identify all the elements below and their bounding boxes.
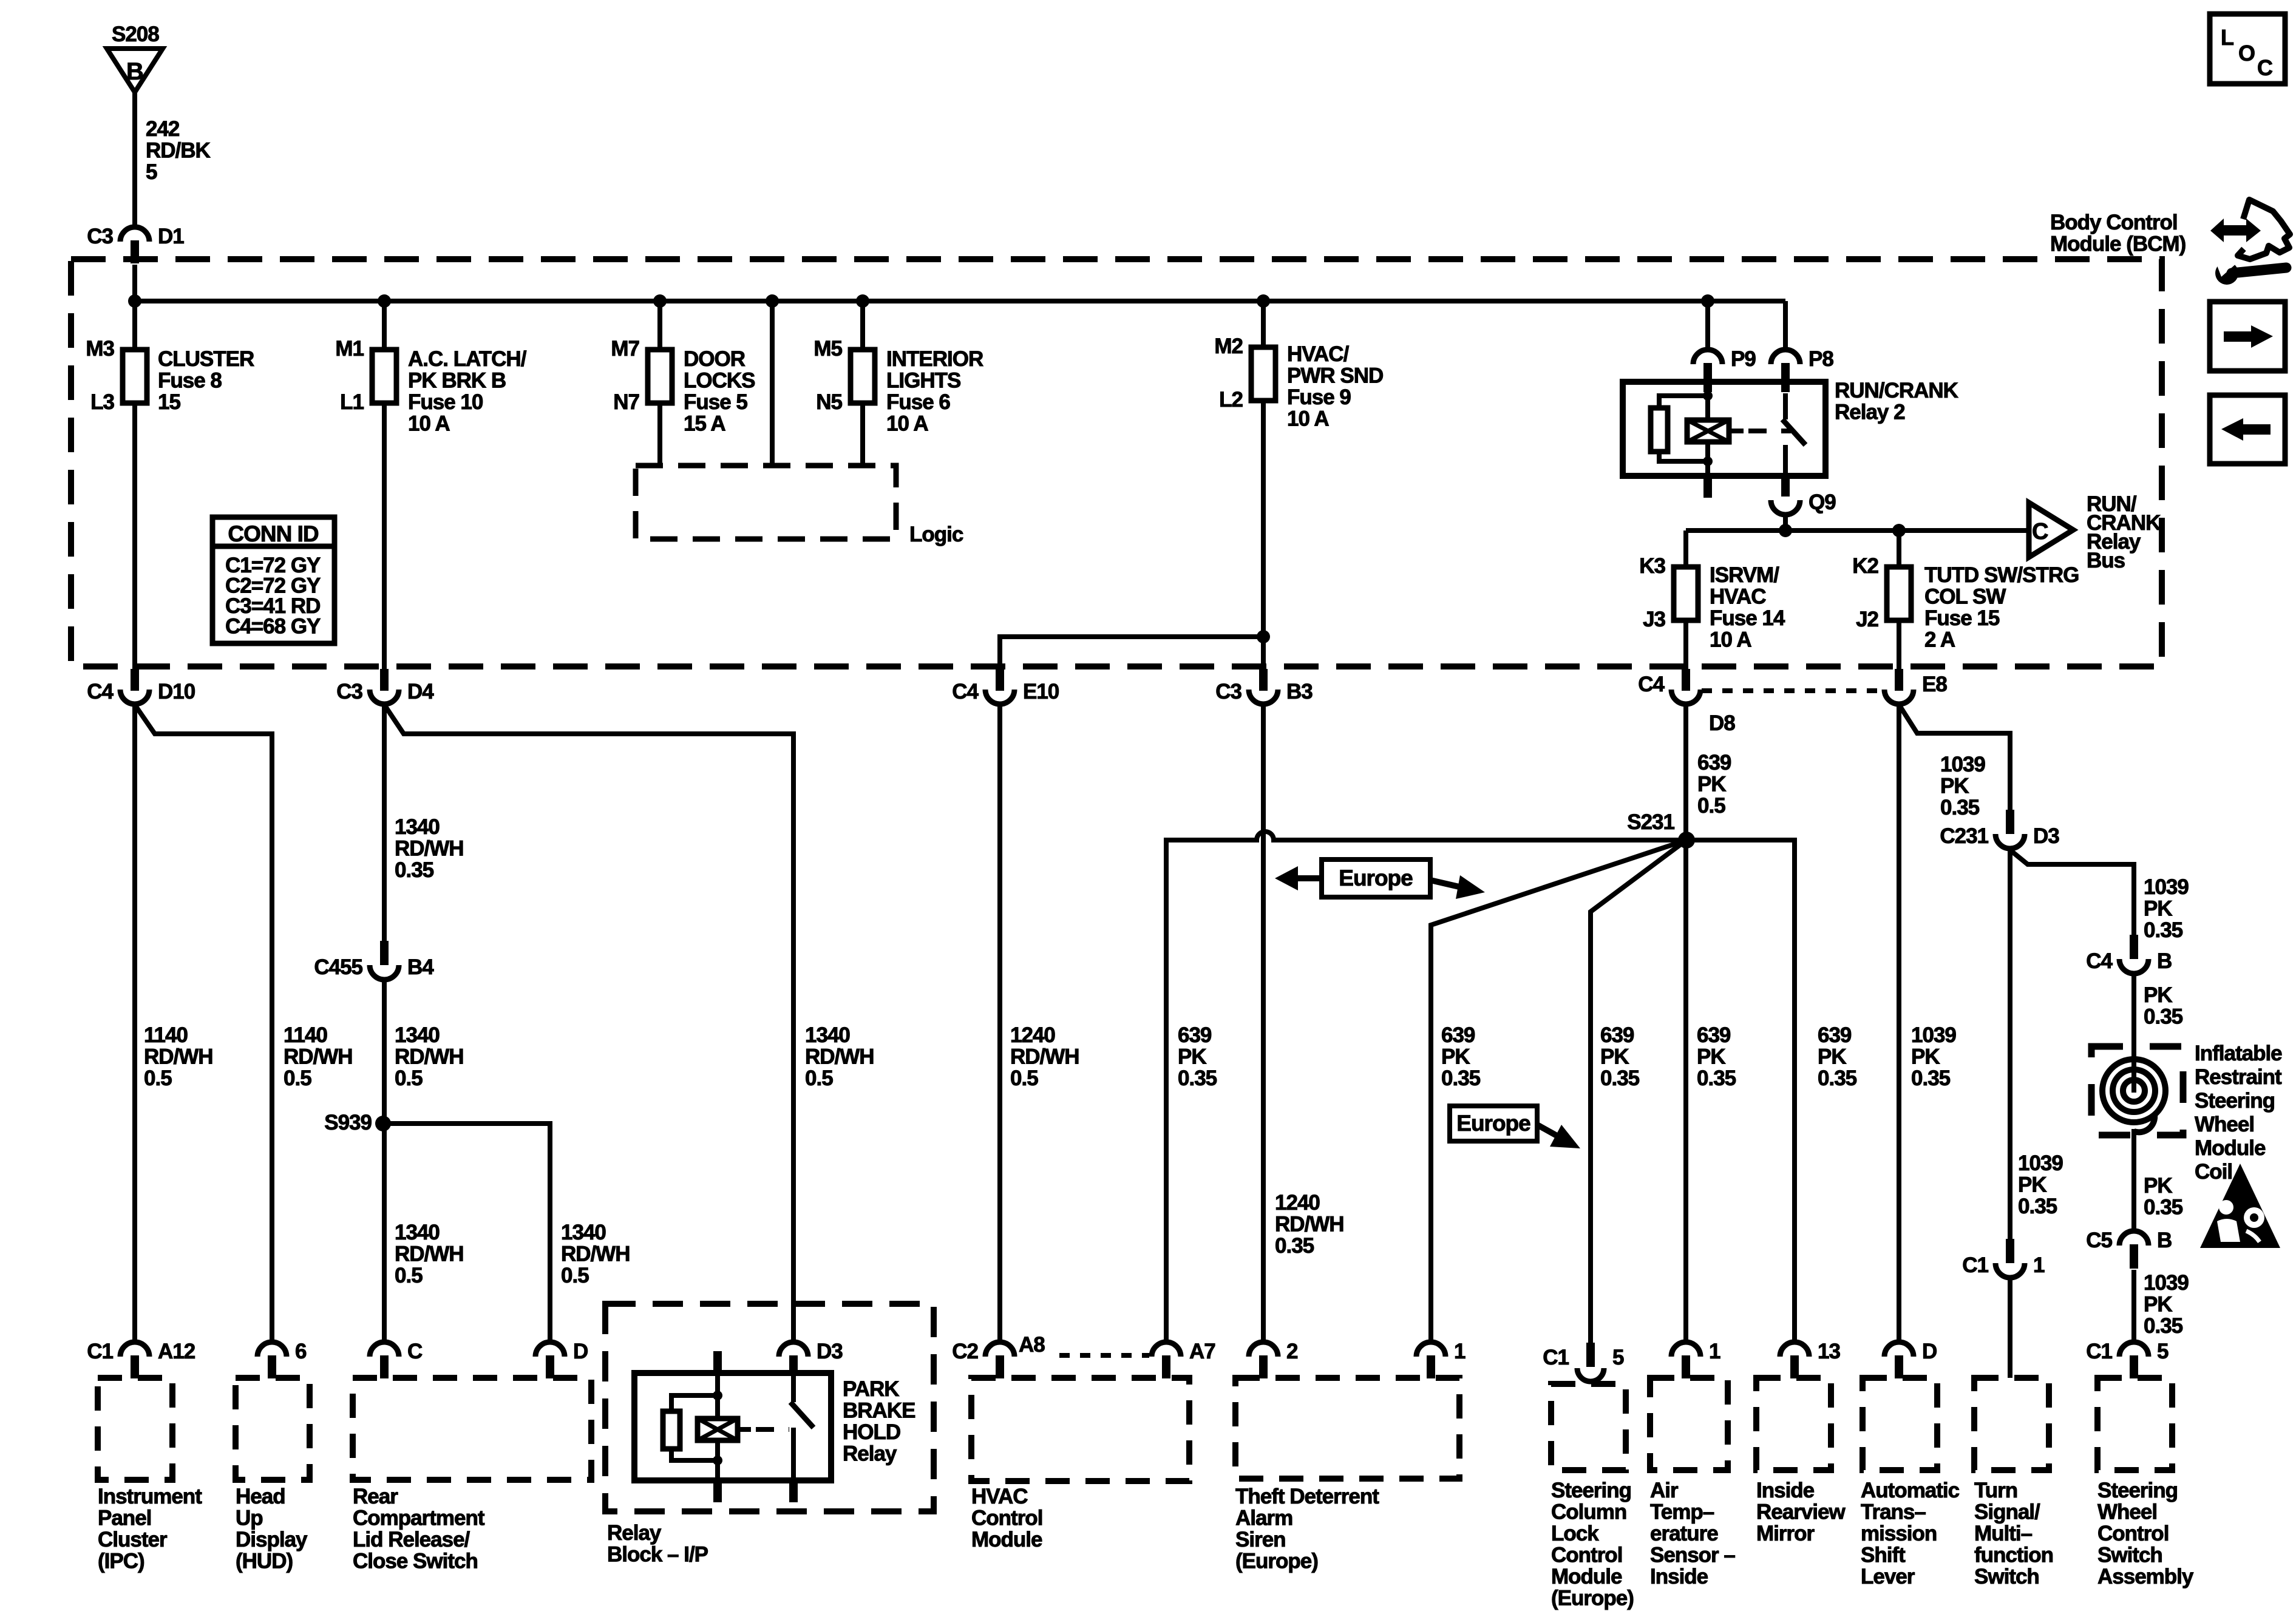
wire D1 pin to bus	[132, 265, 137, 301]
svg-text:N5: N5	[816, 390, 842, 414]
fuse 9 HVAC/PWR SND (M2/L2)	[1251, 347, 1275, 401]
svg-text:B: B	[126, 58, 143, 85]
connector C4 D10	[131, 669, 139, 691]
wire bus to fuse M5 to logic	[860, 301, 865, 466]
connector 13 mirror	[1780, 1342, 1809, 1357]
Air Temperature Sensor Inside box	[1650, 1378, 1728, 1470]
svg-text:C4: C4	[952, 680, 979, 703]
connector D shift lever	[1884, 1342, 1914, 1357]
svg-text:C: C	[2032, 519, 2048, 544]
svg-text:B: B	[2157, 949, 2172, 973]
svg-text:D10: D10	[158, 680, 195, 703]
wire PK to coil box	[2131, 975, 2136, 1046]
fuse 8 CLUSTER (M3/L3)	[123, 350, 147, 403]
SIR airbag warning triangle icon	[2200, 1164, 2280, 1248]
relay PARK BRAKE HOLD box	[634, 1373, 831, 1480]
connector Q9	[1771, 500, 1800, 515]
connector P8 into relay	[1771, 350, 1800, 364]
bus junction logic branch	[766, 294, 779, 308]
Body Control Module (BCM) dashed box	[71, 259, 2162, 666]
wire PK coil to C5 B	[2131, 1129, 2136, 1231]
Theft Deterrent Alarm Siren box	[1235, 1378, 1459, 1479]
wire Q9 to relay bus	[1783, 516, 1788, 531]
wire 242 RD/BK from S208 to C3 D1	[132, 92, 137, 227]
wire S231 left branch to HVAC A7 with hop over B3 wire	[1166, 832, 1686, 1343]
HVAC Control Module box	[971, 1378, 1189, 1481]
wire S231 diagonal to steering column lock	[1591, 840, 1686, 1343]
park brake relay switch blade	[790, 1402, 813, 1428]
svg-text:A8: A8	[1019, 1333, 1045, 1357]
wire relay bus to fuse K2 to E8	[1897, 531, 1901, 669]
svg-text:S208: S208	[112, 22, 159, 46]
relay 2 switch upper stub	[1783, 393, 1788, 419]
wire fuse9 to B3	[1261, 637, 1266, 669]
wire 1140 RD/WH to IPC	[132, 705, 137, 1343]
relay 2 switch blade	[1782, 419, 1805, 445]
svg-text:B4: B4	[407, 955, 434, 979]
connector C4 E10	[996, 669, 1004, 691]
connector D3 relay block	[779, 1342, 808, 1357]
wire 1340 RD/WH to C455	[382, 705, 387, 941]
svg-text:M2: M2	[1214, 334, 1243, 358]
connector C1 5 steering wheel	[2119, 1342, 2148, 1357]
Steering Column Lock Control Module box	[1551, 1384, 1626, 1470]
svg-text:D8: D8	[1709, 711, 1735, 735]
park brake relay switch upper stub	[791, 1373, 796, 1402]
relay 2 coil wire	[1705, 393, 1710, 461]
bus junction at M3	[128, 294, 141, 308]
connector C4 B	[2130, 935, 2138, 959]
wire bus branch to logic	[770, 301, 775, 466]
relay 2 coil junction bottom	[1703, 456, 1713, 466]
svg-text:C2: C2	[952, 1340, 978, 1363]
BCM internal supply bus	[135, 299, 1785, 303]
Inflatable Restraint Steering Wheel Module Coil dashed box	[2091, 1046, 2183, 1135]
svg-text:A12: A12	[158, 1340, 195, 1363]
bus junction at M1	[378, 294, 391, 308]
wire 1340 RD/WH to switch C	[382, 981, 387, 1343]
svg-text:C3: C3	[1215, 680, 1241, 703]
Europe callout lower	[1450, 1106, 1537, 1141]
relay 2 coil junction top	[1703, 391, 1713, 401]
wire 1039 PK E8 branch to C231	[1900, 707, 2010, 810]
svg-text:L3: L3	[90, 390, 114, 414]
connector C3 D1 into BCM	[120, 227, 149, 242]
wire 1039 PK C231 to C1 1	[2008, 850, 2012, 1239]
Europe callout upper	[1322, 859, 1430, 897]
svg-text:C1: C1	[87, 1340, 113, 1363]
wire 1240 RD/WH to siren 2	[1261, 705, 1266, 1343]
back arrow box	[2210, 395, 2285, 464]
svg-text:Europe: Europe	[1456, 1111, 1530, 1136]
Europe lower arrow	[1537, 1125, 1559, 1137]
svg-text:S939: S939	[324, 1111, 372, 1134]
park brake relay coil ground stub	[715, 1460, 720, 1480]
Head Up Display box	[236, 1378, 310, 1480]
svg-text:M3: M3	[86, 337, 114, 361]
svg-text:P9: P9	[1731, 347, 1756, 371]
fuse 6 INTERIOR LIGHTS (M5/N5)	[851, 350, 875, 403]
forward arrow box	[2210, 302, 2285, 371]
Inside Rearview Mirror box	[1756, 1378, 1831, 1470]
svg-text:5: 5	[1612, 1346, 1624, 1369]
wire 1240 RD/WH to HVAC A8	[997, 705, 1002, 1343]
fuse 15 TUTD SW/STRG COL SW (K2/J2)	[1887, 567, 1911, 620]
svg-text:C4: C4	[2086, 949, 2113, 973]
wire 1340 RD/WH branch to relay block D3	[385, 707, 793, 1343]
svg-text:C3: C3	[336, 680, 362, 703]
svg-text:L2: L2	[1219, 388, 1243, 412]
svg-text:M1: M1	[335, 337, 364, 361]
svg-text:Logic: Logic	[909, 523, 963, 546]
svg-text:Body ControlModule (BCM): Body ControlModule (BCM)	[2050, 211, 2186, 256]
wire RUN/CRANK relay bus horizontal	[1686, 528, 2029, 533]
park brake relay coil wire	[715, 1373, 720, 1460]
park brake relay solenoid coil symbol	[698, 1419, 738, 1440]
svg-text:L1: L1	[340, 390, 364, 414]
svg-text:A7: A7	[1189, 1340, 1215, 1363]
junction fuse9 output split	[1257, 630, 1270, 643]
park brake relay dashed actuator link	[756, 1427, 789, 1432]
svg-text:2: 2	[1286, 1340, 1298, 1363]
svg-text:K2: K2	[1852, 554, 1878, 578]
park brake relay wire to resistor	[671, 1395, 718, 1411]
connector C switch	[370, 1342, 399, 1357]
wire 639 PK from D8 through S231 to sensor	[1683, 705, 1688, 1343]
wire 1140 RD/WH branch to HUD	[136, 707, 272, 1343]
park brake relay coil junction top	[713, 1391, 722, 1400]
svg-text:6: 6	[295, 1340, 307, 1363]
wire S939 branch to switch D	[383, 1124, 550, 1343]
connector C2 A8 HVAC	[985, 1342, 1014, 1357]
svg-text:Europe: Europe	[1339, 866, 1413, 890]
svg-text:D3: D3	[817, 1340, 843, 1363]
wire bus to fuse M3 to D10	[132, 301, 137, 669]
svg-text:D: D	[573, 1340, 588, 1363]
park brake relay coil terminal stub	[713, 1351, 722, 1375]
svg-text:SteeringColumnLockControlModul: SteeringColumnLockControlModule(Europe)	[1551, 1479, 1634, 1610]
fuse 10 A.C. LATCH/PK BRK B (M1/L1)	[372, 350, 396, 403]
svg-text:E8: E8	[1922, 673, 1947, 696]
svg-text:1: 1	[2033, 1253, 2045, 1277]
connector C1 5 steering column lock	[1586, 1343, 1595, 1367]
bus junction at M2	[1257, 294, 1270, 308]
relay 2 wire resistor to coil	[1659, 452, 1708, 461]
relay 2 resistor R	[1651, 408, 1668, 452]
svg-text:B: B	[2157, 1229, 2172, 1252]
junction K2 on relay bus	[1892, 524, 1906, 537]
relay 2 solenoid coil symbol	[1687, 420, 1729, 442]
relay 2 dashed actuator link	[1748, 429, 1791, 433]
svg-text:C4: C4	[87, 680, 114, 703]
svg-text:O: O	[2238, 41, 2255, 66]
connector C1 A12 IPC	[120, 1342, 149, 1357]
connector 1 air temp sensor	[1671, 1342, 1700, 1357]
Europe upper right arrow	[1430, 880, 1462, 887]
wire bus to fuse M2 down to split	[1261, 301, 1266, 637]
bus junction at M5	[856, 294, 869, 308]
connector E8	[1895, 669, 1903, 691]
diagnostic connector-wrench icon	[2210, 219, 2261, 242]
connector C231 D3	[2006, 810, 2014, 834]
svg-text:E10: E10	[1023, 680, 1059, 703]
svg-text:J3: J3	[1643, 608, 1665, 631]
Relay Block - I/P dashed box	[605, 1304, 934, 1511]
svg-text:C1: C1	[1962, 1253, 1988, 1277]
svg-text:D: D	[1922, 1340, 1937, 1363]
relay 2 switch lower stub	[1783, 445, 1788, 476]
svg-text:13: 13	[1818, 1340, 1840, 1363]
svg-text:C231: C231	[1940, 824, 1988, 848]
wire fuse9 to E10	[1000, 637, 1263, 669]
svg-text:M7: M7	[611, 337, 639, 361]
wire bus to fuse M1 to D4	[382, 301, 387, 669]
wire bus corner to P8	[1783, 301, 1788, 351]
Turn Signal Multifunction Switch box	[1974, 1378, 2049, 1470]
svg-text:C4: C4	[1638, 673, 1665, 696]
svg-text:D3: D3	[2033, 824, 2059, 848]
svg-text:C455: C455	[314, 955, 362, 979]
relay 2 coil ground stub	[1705, 461, 1710, 476]
svg-text:P8: P8	[1809, 347, 1833, 371]
splice S939	[375, 1116, 391, 1131]
wire bus to fuse M7 to logic	[657, 301, 662, 466]
svg-text:D1: D1	[158, 225, 184, 248]
connector 1 siren	[1416, 1342, 1445, 1357]
connector D switch	[535, 1342, 565, 1357]
bus junction at P9	[1701, 294, 1714, 308]
Steering Wheel Control Switch box	[2097, 1378, 2172, 1470]
svg-text:S231: S231	[1627, 810, 1674, 834]
wire 1039 PK E8 to shift lever D	[1897, 705, 1901, 1343]
Rear Compartment Lid Release/Close Switch box	[353, 1378, 591, 1480]
svg-text:C5: C5	[2086, 1229, 2112, 1252]
splice symbol S208 triangle B	[107, 49, 163, 92]
connector P9 into relay	[1693, 350, 1722, 364]
park brake relay switch lower stub	[791, 1428, 796, 1480]
wire C1 1 into turn signal switch	[2008, 1279, 2012, 1378]
connector 2 siren	[1249, 1342, 1278, 1357]
connector C5 B	[2119, 1231, 2148, 1246]
relay RUN/CRANK Relay 2 box	[1623, 382, 1826, 476]
clockspring coil spiral symbol	[2131, 1046, 2136, 1093]
Instrument Panel Cluster box	[98, 1378, 172, 1480]
junction Q9 on relay bus	[1779, 524, 1792, 537]
svg-text:L: L	[2221, 25, 2233, 50]
wire 1039 PK to steering wheel C1 5	[2131, 1270, 2136, 1343]
svg-text:C1=72 GYC2=72 GYC3=41 RDC4=68: C1=72 GYC2=72 GYC3=41 RDC4=68 GY	[225, 554, 321, 639]
wire bus to P9	[1705, 301, 1710, 351]
svg-text:CONN ID: CONN ID	[228, 521, 319, 546]
relay 2 wire to resistor	[1659, 396, 1708, 408]
connector 6 HUD	[257, 1342, 287, 1357]
wire S231 right branch to mirror 13	[1686, 840, 1795, 1343]
park brake relay resistor R	[663, 1411, 680, 1449]
svg-text:J2: J2	[1856, 608, 1878, 631]
svg-text:C: C	[407, 1340, 423, 1363]
svg-text:D4: D4	[407, 680, 434, 703]
dotted connector tie A8-A7	[1059, 1353, 1149, 1358]
off-page triangle C RUN/CRANK Relay Bus	[2029, 503, 2073, 557]
svg-text:5: 5	[2157, 1340, 2169, 1363]
wire 1039 PK branch to coil C4 B	[2011, 851, 2134, 935]
svg-text:Q9: Q9	[1809, 490, 1836, 514]
connector A7 HVAC	[1152, 1342, 1181, 1357]
connector C3 D4	[380, 669, 389, 691]
svg-text:C1: C1	[2086, 1340, 2112, 1363]
svg-text:C1: C1	[1543, 1346, 1569, 1369]
bus junction at M7	[653, 294, 667, 308]
BCM internal Logic dashed box	[636, 466, 896, 539]
svg-text:1: 1	[1709, 1340, 1720, 1363]
Europe upper left arrow	[1294, 875, 1322, 881]
LOC reference box	[2210, 14, 2285, 84]
svg-text:1: 1	[1454, 1340, 1466, 1363]
svg-text:K3: K3	[1639, 554, 1665, 578]
svg-text:B3: B3	[1286, 680, 1313, 703]
connector C1 1 turn signal	[2006, 1239, 2014, 1263]
wire relay bus to fuse K3 to D8	[1683, 531, 1688, 669]
fuse 14 ISRVM/HVAC (K3/J3)	[1674, 567, 1698, 620]
svg-text:N7: N7	[613, 390, 639, 414]
park brake relay wire resistor to coil	[671, 1449, 718, 1460]
fuse 5 DOOR LOCKS (M7/N7)	[648, 350, 672, 403]
CONN ID legend box	[212, 517, 335, 643]
splice S231	[1678, 832, 1695, 849]
svg-text:C: C	[2257, 55, 2273, 80]
park brake relay coil junction bottom	[713, 1456, 722, 1465]
svg-text:C3: C3	[87, 225, 113, 248]
svg-text:M5: M5	[813, 337, 842, 361]
connector C455 B4	[380, 941, 389, 965]
connector C3 B3	[1259, 669, 1268, 691]
wire S231 diagonal to siren 1	[1431, 840, 1686, 1343]
connector C4 D8	[1682, 669, 1690, 691]
dotted connector tie D8-E8	[1702, 688, 1883, 693]
Automatic Transmission Shift Lever box	[1863, 1378, 1937, 1470]
